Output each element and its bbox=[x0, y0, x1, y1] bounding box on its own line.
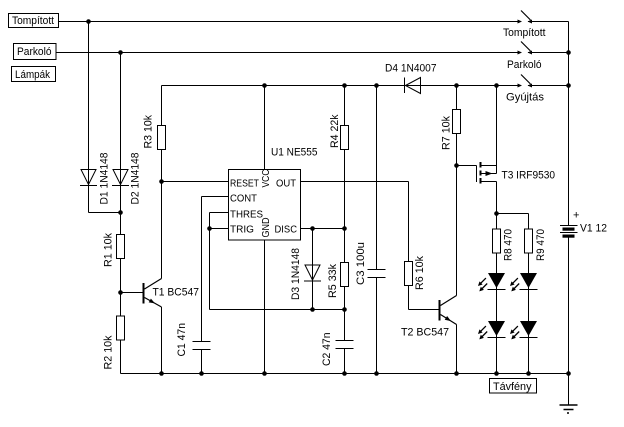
svg-text:R7 10k: R7 10k bbox=[441, 116, 453, 150]
svg-text:T3 IRF9530: T3 IRF9530 bbox=[502, 170, 556, 182]
svg-text:U1 NE555: U1 NE555 bbox=[271, 147, 318, 159]
svg-text:+: + bbox=[573, 210, 579, 222]
svg-text:GND: GND bbox=[261, 218, 272, 238]
svg-text:T2 BC547: T2 BC547 bbox=[401, 327, 449, 339]
svg-text:R1 10k: R1 10k bbox=[103, 233, 115, 267]
svg-text:Gyújtás: Gyújtás bbox=[506, 92, 545, 104]
svg-text:R3 10k: R3 10k bbox=[143, 115, 155, 149]
svg-text:V1 12: V1 12 bbox=[580, 223, 607, 235]
svg-text:C3 100u: C3 100u bbox=[355, 242, 367, 285]
svg-text:CONT: CONT bbox=[230, 194, 257, 205]
svg-text:C1 47n: C1 47n bbox=[176, 323, 188, 357]
svg-text:R4 22k: R4 22k bbox=[329, 114, 341, 148]
svg-text:RESET: RESET bbox=[230, 179, 259, 190]
svg-text:Parkoló: Parkoló bbox=[507, 59, 542, 71]
svg-text:T1 BC547: T1 BC547 bbox=[153, 287, 200, 299]
svg-text:D1 1N4148: D1 1N4148 bbox=[99, 153, 111, 205]
svg-text:D2 1N4148: D2 1N4148 bbox=[130, 153, 142, 205]
svg-text:THRES: THRES bbox=[230, 210, 263, 221]
svg-text:C2 47n: C2 47n bbox=[321, 333, 333, 367]
svg-text:R9 470: R9 470 bbox=[535, 229, 547, 261]
svg-text:R2 10k: R2 10k bbox=[103, 335, 115, 369]
svg-text:R5 33k: R5 33k bbox=[327, 264, 339, 298]
svg-text:D4 1N4007: D4 1N4007 bbox=[385, 63, 437, 75]
svg-text:OUT: OUT bbox=[276, 179, 296, 190]
svg-text:Lámpák: Lámpák bbox=[15, 69, 50, 81]
svg-text:VCC: VCC bbox=[261, 170, 272, 188]
svg-text:R8 470: R8 470 bbox=[503, 229, 515, 261]
svg-text:Tompított: Tompított bbox=[12, 15, 54, 27]
svg-text:DISC: DISC bbox=[275, 225, 298, 236]
svg-text:R6 10k: R6 10k bbox=[414, 256, 426, 290]
svg-text:Távfény: Távfény bbox=[493, 381, 532, 393]
svg-text:Tompított: Tompított bbox=[503, 27, 546, 39]
svg-text:Parkoló: Parkoló bbox=[17, 46, 52, 58]
svg-text:TRIG: TRIG bbox=[230, 225, 254, 236]
svg-text:D3 1N4148: D3 1N4148 bbox=[290, 248, 302, 300]
